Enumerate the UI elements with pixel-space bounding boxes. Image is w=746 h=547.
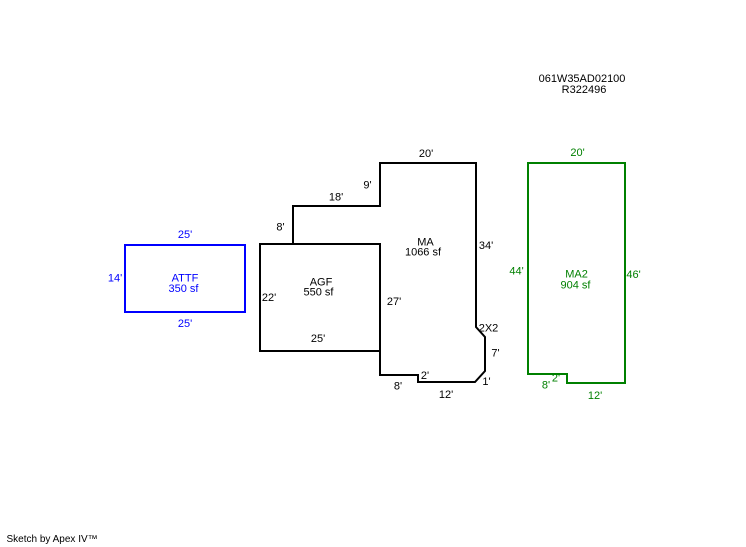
svg-text:R322496: R322496 (562, 84, 607, 96)
AGF black rectangle outline (260, 244, 380, 351)
svg-text:9': 9' (363, 180, 371, 192)
MA2 dimension 8' bottom (542, 380, 550, 392)
MA2 dimension 44' left (509, 266, 523, 278)
svg-text:44': 44' (509, 266, 523, 278)
svg-text:904 sf: 904 sf (561, 280, 592, 292)
svg-text:8': 8' (542, 380, 550, 392)
svg-text:2': 2' (421, 370, 429, 382)
svg-text:27': 27' (387, 296, 401, 308)
svg-text:25': 25' (178, 318, 192, 330)
MA2 label (561, 269, 592, 292)
footer Sketch by Apex IV (7, 534, 98, 545)
svg-text:12': 12' (439, 389, 453, 401)
MA2 green polygon outline (528, 163, 625, 383)
MA2 dimension 46' right (626, 269, 640, 281)
svg-text:550 sf: 550 sf (304, 287, 335, 299)
MA dimension 9' (363, 180, 371, 192)
svg-text:20': 20' (570, 147, 584, 159)
ATTF label (169, 273, 200, 296)
svg-text:18': 18' (329, 192, 343, 204)
AGF dimension 22' left (262, 292, 276, 304)
MA dimension 2' (421, 370, 429, 382)
svg-text:8': 8' (394, 381, 402, 393)
MA2 dimension 20' top (570, 147, 584, 159)
MA dimension 8' bottom (394, 381, 402, 393)
svg-text:25': 25' (178, 229, 192, 241)
MA dimension 8' upper left (276, 222, 284, 234)
MA dimension 18' (329, 192, 343, 204)
svg-text:1': 1' (482, 376, 490, 388)
svg-text:1066 sf: 1066 sf (405, 247, 442, 259)
MA2 dimension 2' bottom (552, 373, 560, 385)
parcel id text 061W35AD02100 (539, 73, 626, 85)
svg-text:12': 12' (588, 390, 602, 402)
parcel id text R322496 (562, 84, 607, 96)
MA dimension 20' top (419, 148, 433, 160)
MA black polygon outline (293, 163, 485, 382)
ATTF dimension 25' bottom (178, 318, 192, 330)
svg-text:14': 14' (108, 273, 122, 285)
MA dimension 27' (387, 296, 401, 308)
svg-text:34': 34' (479, 240, 493, 252)
MA label (405, 237, 442, 259)
svg-text:46': 46' (626, 269, 640, 281)
MA dimension 12' bottom (439, 389, 453, 401)
svg-text:8': 8' (276, 222, 284, 234)
MA dimension 7' (491, 348, 499, 360)
AGF dimension 25' bottom (311, 333, 325, 345)
svg-text:25': 25' (311, 333, 325, 345)
svg-text:20': 20' (419, 148, 433, 160)
svg-text:2': 2' (552, 373, 560, 385)
ATTF blue rectangle outline (125, 245, 245, 312)
AGF label (304, 277, 335, 299)
MA dimension 2X2 (479, 323, 499, 335)
ATTF dimension 25' top (178, 229, 192, 241)
svg-text:22': 22' (262, 292, 276, 304)
svg-text:Sketch by Apex IV™: Sketch by Apex IV™ (7, 534, 98, 545)
ATTF dimension 14' left (108, 273, 122, 285)
svg-text:7': 7' (491, 348, 499, 360)
MA dimension 34' right (479, 240, 493, 252)
svg-text:350 sf: 350 sf (169, 283, 200, 295)
MA2 dimension 12' bottom (588, 390, 602, 402)
svg-text:2X2: 2X2 (479, 323, 499, 335)
MA dimension 1' (482, 376, 490, 388)
